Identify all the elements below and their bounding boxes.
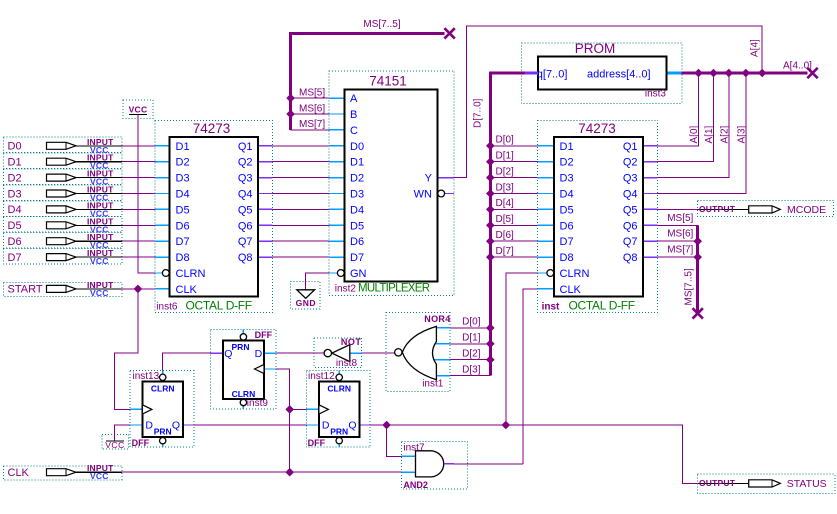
svg-text:Q: Q — [172, 420, 180, 432]
svg-text:MS[7]: MS[7] — [299, 119, 325, 130]
svg-text:Q: Q — [224, 348, 232, 360]
svg-text:B: B — [350, 109, 357, 121]
svg-text:DFF: DFF — [308, 438, 326, 448]
svg-text:D[3]: D[3] — [496, 182, 515, 193]
svg-text:D6: D6 — [8, 236, 22, 248]
svg-text:D5: D5 — [560, 204, 574, 216]
svg-text:D[7..0]: D[7..0] — [473, 98, 484, 128]
svg-text:D[5]: D[5] — [496, 214, 515, 225]
svg-text:STATUS: STATUS — [787, 478, 827, 490]
svg-text:D4: D4 — [560, 189, 574, 201]
svg-text:OUTPUT: OUTPUT — [699, 478, 736, 488]
svg-text:Q1: Q1 — [238, 141, 253, 153]
svg-text:CLRN: CLRN — [151, 383, 175, 393]
svg-text:A[1]: A[1] — [704, 125, 715, 143]
svg-text:inst7: inst7 — [403, 443, 425, 454]
svg-text:D[4]: D[4] — [496, 198, 515, 209]
svg-text:Y: Y — [425, 173, 433, 185]
svg-text:inst13: inst13 — [133, 371, 160, 382]
svg-text:D0: D0 — [350, 141, 364, 153]
svg-text:inst3: inst3 — [645, 89, 667, 100]
svg-text:VCC: VCC — [90, 471, 109, 481]
svg-text:Q1: Q1 — [623, 141, 638, 153]
svg-text:NOR4: NOR4 — [424, 314, 450, 324]
svg-text:A[0]: A[0] — [689, 125, 700, 143]
svg-text:D1: D1 — [176, 141, 190, 153]
svg-text:PROM: PROM — [575, 41, 616, 56]
svg-text:D5: D5 — [8, 220, 22, 232]
svg-text:VCC: VCC — [90, 288, 109, 298]
svg-text:D8: D8 — [176, 252, 190, 264]
svg-text:D7: D7 — [560, 236, 574, 248]
svg-text:D8: D8 — [560, 252, 574, 264]
svg-text:MS[7]: MS[7] — [667, 245, 693, 256]
svg-text:D[0]: D[0] — [496, 135, 515, 146]
svg-text:D1: D1 — [350, 157, 364, 169]
svg-text:D[2]: D[2] — [462, 349, 481, 360]
svg-text:inst: inst — [542, 302, 560, 313]
svg-text:inst12: inst12 — [308, 371, 335, 382]
svg-text:D: D — [255, 348, 263, 360]
svg-text:D6: D6 — [350, 236, 364, 248]
svg-text:GND: GND — [296, 298, 316, 308]
svg-text:address[4..0]: address[4..0] — [587, 68, 651, 80]
svg-text:MS[7..5]: MS[7..5] — [363, 19, 400, 30]
svg-text:Q7: Q7 — [623, 236, 638, 248]
svg-text:D[1]: D[1] — [496, 151, 515, 162]
svg-text:D2: D2 — [176, 157, 190, 169]
svg-text:D3: D3 — [8, 188, 22, 200]
svg-text:D1: D1 — [560, 141, 574, 153]
svg-text:MS[6]: MS[6] — [299, 103, 325, 114]
svg-text:D5: D5 — [176, 204, 190, 216]
svg-text:OUTPUT: OUTPUT — [699, 204, 736, 214]
svg-text:D[2]: D[2] — [496, 166, 515, 177]
svg-text:D[1]: D[1] — [462, 333, 481, 344]
svg-text:D3: D3 — [176, 173, 190, 185]
svg-text:C: C — [350, 125, 358, 137]
svg-text:OCTAL D-FF: OCTAL D-FF — [186, 299, 252, 313]
svg-text:D[7]: D[7] — [496, 246, 515, 257]
svg-text:CLK: CLK — [176, 284, 198, 296]
svg-text:D3: D3 — [350, 189, 364, 201]
svg-text:q[7..0]: q[7..0] — [537, 68, 568, 80]
svg-text:MS[7..5]: MS[7..5] — [684, 268, 695, 305]
svg-text:DFF: DFF — [255, 330, 273, 340]
svg-text:Q8: Q8 — [623, 252, 638, 264]
svg-text:inst2: inst2 — [335, 284, 357, 295]
svg-text:A[4]: A[4] — [750, 39, 761, 57]
svg-text:A[2]: A[2] — [719, 125, 730, 143]
svg-text:Q6: Q6 — [238, 220, 253, 232]
svg-text:Q4: Q4 — [623, 189, 638, 201]
svg-text:Q6: Q6 — [623, 220, 638, 232]
svg-text:D6: D6 — [560, 220, 574, 232]
svg-text:D[0]: D[0] — [462, 317, 481, 328]
svg-text:VCC: VCC — [129, 105, 148, 115]
svg-text:Q7: Q7 — [238, 236, 253, 248]
svg-text:VCC: VCC — [90, 256, 109, 266]
svg-text:Q2: Q2 — [623, 157, 638, 169]
svg-text:CLK: CLK — [8, 467, 30, 479]
svg-text:Q3: Q3 — [238, 173, 253, 185]
svg-text:Q3: Q3 — [623, 173, 638, 185]
svg-text:D6: D6 — [176, 220, 190, 232]
svg-text:Q5: Q5 — [238, 204, 253, 216]
svg-text:CLRN: CLRN — [560, 268, 590, 280]
svg-text:OCTAL D-FF: OCTAL D-FF — [569, 299, 635, 313]
svg-text:Q2: Q2 — [238, 157, 253, 169]
svg-text:D1: D1 — [8, 157, 22, 169]
svg-text:74273: 74273 — [193, 121, 231, 136]
svg-text:D0: D0 — [8, 141, 22, 153]
svg-text:D3: D3 — [560, 173, 574, 185]
svg-text:D7: D7 — [350, 252, 364, 264]
svg-text:inst8: inst8 — [336, 358, 358, 369]
svg-text:D5: D5 — [350, 220, 364, 232]
svg-text:MCODE: MCODE — [787, 204, 826, 216]
svg-text:MS[5]: MS[5] — [299, 87, 325, 98]
svg-text:CLRN: CLRN — [176, 268, 206, 280]
svg-text:START: START — [8, 284, 43, 296]
svg-text:Q8: Q8 — [238, 252, 253, 264]
svg-text:NOT: NOT — [341, 337, 362, 347]
svg-text:inst1: inst1 — [422, 379, 444, 390]
svg-text:CLK: CLK — [560, 284, 582, 296]
svg-text:D2: D2 — [8, 172, 22, 184]
svg-text:A[3]: A[3] — [736, 125, 747, 143]
svg-text:PRN: PRN — [330, 427, 348, 437]
svg-text:GN: GN — [350, 268, 367, 280]
svg-text:D4: D4 — [350, 204, 364, 216]
svg-text:CLRN: CLRN — [327, 383, 351, 393]
svg-text:AND2: AND2 — [403, 480, 428, 490]
svg-text:Q4: Q4 — [238, 189, 253, 201]
svg-text:MULTIPLEXER: MULTIPLEXER — [358, 283, 430, 295]
svg-text:Q5: Q5 — [623, 204, 638, 216]
svg-text:D7: D7 — [8, 252, 22, 264]
svg-text:CLRN: CLRN — [232, 389, 256, 399]
svg-text:D7: D7 — [176, 236, 190, 248]
svg-text:PRN: PRN — [154, 427, 172, 437]
svg-text:D: D — [145, 420, 153, 432]
svg-text:WN: WN — [414, 189, 432, 201]
svg-text:D4: D4 — [8, 204, 22, 216]
svg-text:Q: Q — [348, 420, 356, 432]
svg-text:D4: D4 — [176, 189, 190, 201]
svg-text:D: D — [322, 420, 330, 432]
svg-text:A[4..0]: A[4..0] — [783, 61, 812, 72]
svg-text:MS[5]: MS[5] — [667, 213, 693, 224]
svg-text:D[6]: D[6] — [496, 230, 515, 241]
svg-text:PRN: PRN — [232, 342, 250, 352]
svg-text:inst6: inst6 — [156, 302, 178, 313]
svg-text:D2: D2 — [350, 173, 364, 185]
svg-text:D2: D2 — [560, 157, 574, 169]
svg-text:D[3]: D[3] — [462, 364, 481, 375]
svg-text:74273: 74273 — [578, 121, 616, 136]
svg-text:inst9: inst9 — [247, 398, 269, 409]
svg-text:74151: 74151 — [369, 74, 407, 89]
svg-text:DFF: DFF — [132, 438, 150, 448]
svg-text:VCC: VCC — [105, 440, 124, 450]
svg-text:A: A — [350, 93, 358, 105]
svg-text:MS[6]: MS[6] — [667, 229, 693, 240]
